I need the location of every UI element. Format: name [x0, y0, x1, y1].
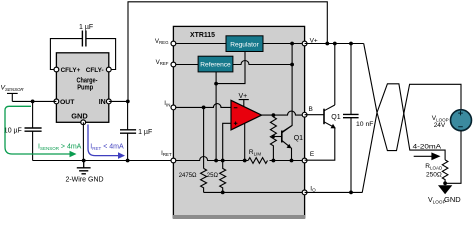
op-amp V+ supply tick — [239, 93, 249, 106]
node: R_LOAD bottom — [443, 181, 447, 185]
node: base tap — [272, 135, 275, 138]
node: limit resistor bottom — [272, 159, 276, 163]
wire: ground rail to I_RET pin — [33, 160, 174, 162]
transistor Q1 external — [305, 44, 341, 161]
wire: 1uF flying cap to CFLY- — [86, 39, 116, 70]
svg-text:25Ω: 25Ω — [207, 173, 219, 179]
capacitor 10uF — [4, 127, 42, 134]
pin I_IN — [171, 105, 176, 110]
wire: E rail R_LIM to E pin — [270, 160, 305, 162]
pin V+ — [302, 41, 307, 46]
svg-text:250Ω: 250Ω — [426, 171, 442, 178]
node: internal V+ vertical at VREF — [290, 63, 294, 67]
svg-text:OUT: OUT — [60, 99, 75, 106]
pin V_REG — [171, 41, 176, 46]
svg-text:Q1: Q1 — [331, 114, 340, 121]
svg-text:1 µF: 1 µF — [138, 129, 152, 136]
wire: V_REG to Regulator to V+ pin — [173, 43, 304, 45]
pin E — [302, 158, 307, 163]
svg-text:IN: IN — [99, 99, 106, 106]
svg-text:IIN: IIN — [164, 100, 170, 107]
pin CFLY- — [106, 67, 111, 72]
twisted pair conductor A (from V+) — [364, 44, 461, 151]
node: internal V+ vertical top — [290, 42, 294, 46]
transistor Q1 internal — [273, 125, 303, 160]
wire: GND pin down to ground rail — [82, 122, 84, 160]
node: ground junction — [82, 159, 86, 163]
svg-text:4-20mA: 4-20mA — [413, 144, 442, 151]
svg-text:CFLY+: CFLY+ — [61, 67, 81, 74]
node: output / limit resistor junction — [272, 113, 276, 117]
svg-text:2475Ω: 2475Ω — [179, 173, 197, 179]
wire: I_O rail to twisted pair — [305, 191, 363, 193]
twisted pair conductor B (from I_O) — [362, 84, 445, 193]
wire: 1uF bypass bottom lead — [127, 133, 129, 160]
svg-text:ISENSOR > 4mA: ISENSOR > 4mA — [38, 143, 82, 151]
svg-text:B: B — [309, 106, 313, 113]
wire: I_IN to op-amp inverting input (hop over reference drop) — [173, 104, 231, 108]
wire: top rail from charge pump IN node to V+ — [128, 2, 327, 102]
source V_LOOP 24V — [432, 110, 472, 131]
svg-text:RLOAD: RLOAD — [425, 163, 443, 171]
node: internal Q1 emitter on E rail — [290, 159, 294, 163]
svg-text:CFLY-: CFLY- — [86, 67, 104, 74]
resistor internal limit — [270, 115, 276, 160]
svg-text:IRET < 4mA: IRET < 4mA — [90, 143, 124, 151]
svg-text:2-Wire GND: 2-Wire GND — [65, 177, 103, 184]
wire: 10uF bottom lead to ground rail — [32, 131, 34, 160]
capacitor C-fly 1uF — [79, 24, 93, 47]
wire: regulator bottom drop — [216, 52, 245, 84]
wire: V_SENSOR to OUT — [12, 100, 56, 102]
regulator block — [226, 36, 263, 52]
svg-text:Reference: Reference — [200, 62, 231, 69]
resistor 25 ohm — [220, 161, 226, 193]
svg-text:VREF: VREF — [156, 59, 169, 66]
XTR115 bottom grey edge — [173, 215, 306, 219]
pin I_O — [302, 190, 307, 195]
svg-text:GND: GND — [71, 114, 88, 121]
node: 10nF bottom — [349, 191, 353, 195]
wire: B pin to external Q1 base — [305, 114, 324, 116]
resistor R_LIM — [248, 158, 267, 164]
wire: + input to E rail — [223, 123, 231, 160]
svg-text:10 nF: 10 nF — [356, 121, 373, 128]
pin V_REF — [171, 62, 176, 67]
annotation arrow 4-20mA — [414, 153, 439, 159]
svg-text:Regulator: Regulator — [230, 41, 259, 48]
op-amp A1 — [231, 100, 262, 130]
ground 2-wire GND symbol — [65, 161, 103, 184]
wire: internal V+ vertical down to Q1 collector — [282, 44, 292, 132]
node: reference drop on E rail — [214, 159, 218, 163]
ground V_LOOP GND triangle — [428, 183, 461, 204]
node: Q1 collector — [333, 42, 337, 46]
annotation arrow I_SENSOR (green) — [5, 106, 82, 157]
svg-text:E: E — [310, 151, 315, 158]
node: op-amp V- on E rail — [243, 159, 247, 163]
wire: V+ rail to twisted pair — [305, 43, 364, 45]
wire: E rail I_RET pin to R_LIM (hop over 2475) — [173, 157, 248, 161]
wire: V_REF to Reference — [173, 64, 198, 66]
svg-text:1 µF: 1 µF — [79, 24, 93, 31]
node: OUT/10uF junction — [31, 100, 35, 104]
node: 25 ohm top on E rail — [221, 159, 225, 163]
wire: IN pin to bypass node — [109, 100, 128, 102]
svg-text:Pump: Pump — [77, 83, 93, 92]
terminal V_SENSOR — [1, 85, 25, 102]
pin B — [302, 112, 307, 117]
svg-text:VREG: VREG — [155, 38, 169, 45]
node: 10nF top — [349, 42, 353, 46]
wire: bottom I_O rail — [204, 191, 305, 193]
wire: 1uF bypass top lead — [127, 101, 129, 129]
svg-text:IRET: IRET — [161, 150, 172, 157]
svg-text:VSENSOR: VSENSOR — [1, 85, 25, 93]
capacitor 10nF — [343, 44, 373, 193]
resistor R_LOAD — [442, 160, 448, 183]
node: IN junction — [126, 100, 130, 104]
wire: CFLY+ to 1uF flying cap — [50, 39, 82, 70]
wire: 10uF top lead — [32, 101, 34, 128]
svg-text:10 µF: 10 µF — [4, 127, 22, 134]
reference block — [198, 56, 233, 72]
svg-text:Q1: Q1 — [294, 135, 303, 142]
wire: Reference to internal V+ vertical (hop over regulator drop) — [233, 61, 292, 65]
wire: op-amp V- tick — [244, 124, 246, 161]
svg-text:GND: GND — [444, 195, 461, 204]
resistor 2475 ohm — [201, 168, 207, 192]
node: reference/regulator link — [214, 82, 218, 86]
annotation arrow I_RET (blue) — [88, 125, 125, 159]
wire: V_LOOP bottom to R_LOAD — [445, 131, 461, 184]
pin CFLY+ — [54, 67, 59, 72]
svg-text:IO: IO — [310, 185, 316, 192]
svg-text:V+: V+ — [239, 93, 248, 100]
wire: op-amp output to B (hop over internal Q1 collector) — [262, 111, 305, 115]
node: 1uF bypass junction — [126, 159, 130, 163]
node: top rail drop — [325, 42, 329, 46]
pin IN — [106, 99, 111, 104]
svg-text:XTR115: XTR115 — [190, 32, 215, 39]
pin OUT — [54, 99, 59, 104]
pin I_RET — [171, 158, 176, 163]
charge pump U2 box — [56, 53, 108, 123]
capacitor 1uF bypass — [120, 129, 152, 136]
wire: reference bottom drop down to E rail — [215, 72, 217, 161]
wire: 2475 top lead — [203, 107, 205, 168]
node: 25 ohm bottom — [221, 191, 225, 195]
node: I_IN / 2475 junction — [202, 106, 206, 110]
svg-text:24V: 24V — [434, 122, 446, 129]
XTR115 IC box — [173, 26, 304, 217]
